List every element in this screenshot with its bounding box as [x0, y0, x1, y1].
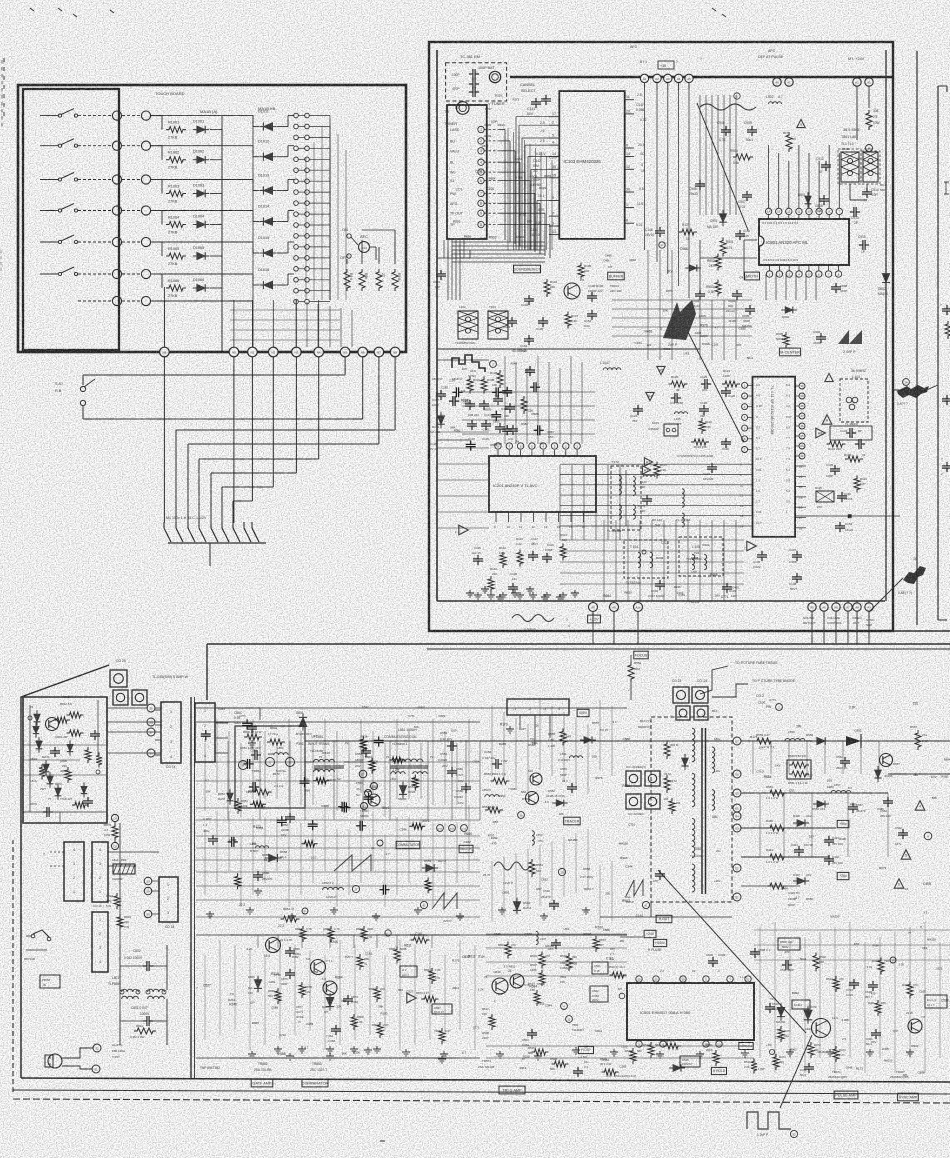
gnd symbol rows in deflection area: [251, 1051, 253, 1054]
resistor R904h: [733, 154, 753, 160]
cap C164: [524, 338, 534, 340]
svg-text:C100: C100: [549, 156, 557, 160]
wire bus A: [305, 740, 737, 742]
C133 12P: [722, 586, 732, 588]
svg-text:22K: 22K: [903, 1073, 908, 1077]
svg-text:2 2K: 2 2K: [478, 987, 485, 991]
R55a 30M resistor: [628, 662, 634, 682]
svg-text:220: 220: [913, 702, 919, 706]
middle connector box B: [92, 842, 108, 902]
41 terminal: [642, 901, 649, 908]
res R107: [565, 312, 571, 329]
svg-text:C222: C222: [936, 967, 943, 971]
svg-text:C771: C771: [408, 714, 415, 718]
svg-text:R319: R319: [520, 1066, 527, 1070]
terminal M1: [112, 111, 121, 120]
TR transistor 24: [510, 974, 524, 988]
diagonal wire from arrow: [922, 385, 938, 392]
diode D1012: [259, 153, 276, 161]
svg-text:C161: C161: [269, 980, 276, 984]
deflection mid horizontals: [196, 761, 480, 763]
C50 cap: [551, 942, 561, 944]
L553b coil: [785, 739, 805, 742]
+12V boxed: [588, 615, 601, 623]
svg-text:C100: C100: [486, 187, 494, 191]
R851 100k: [235, 798, 241, 814]
svg-text:0 068: 0 068: [229, 838, 237, 842]
deflection lower verticals: [204, 955, 206, 1040]
bottom amp labels: [251, 1079, 273, 1087]
svg-text:R173: R173: [273, 772, 280, 776]
IC501 bottom pins: [636, 1041, 642, 1047]
svg-text:C588: C588: [918, 1071, 925, 1075]
wire: [195, 859, 480, 861]
IF box: tuner-to-IC103 vertical weave: [507, 128, 509, 250]
svg-text:MA150: MA150: [550, 901, 560, 905]
svg-text:C710: C710: [274, 973, 281, 977]
sub box wires: [29, 705, 31, 812]
diode D802: [882, 270, 890, 287]
+26V boxed: [837, 872, 849, 879]
svg-text:R903: R903: [620, 856, 628, 860]
TR471 transistor: [812, 1019, 831, 1038]
H HOLD boxed: [711, 1067, 726, 1074]
cap C11B: [508, 586, 518, 588]
cap C903: [732, 293, 742, 295]
svg-text:2W: 2W: [584, 1045, 588, 1049]
wire: [486, 934, 627, 936]
resistor R90 on +24 rail: [866, 110, 872, 130]
svg-text:UF2: UF2: [684, 351, 690, 355]
IC103 pin 14: [549, 156, 559, 158]
svg-text:R100: R100: [381, 1011, 388, 1015]
caps row under sound reject: [524, 298, 534, 300]
svg-text:C161: C161: [606, 957, 614, 961]
small parts cluster x470-540 y390-450: [465, 403, 475, 405]
sawtooth 4VP-P: [432, 893, 457, 909]
C140 16V16: [837, 495, 847, 497]
C852 2200P: [285, 816, 295, 818]
svg-text:R465: R465: [480, 237, 487, 241]
cap C813: [853, 207, 855, 217]
svg-text:470: 470: [539, 441, 544, 445]
svg-text:R684: R684: [464, 832, 472, 836]
svg-text:C954: C954: [246, 790, 253, 794]
extra cluster caps IF box mid-left: [455, 387, 457, 397]
terminal A6: [589, 603, 598, 612]
svg-text:C588: C588: [691, 556, 699, 560]
C130 cap: [721, 441, 731, 443]
R518b: [630, 1048, 636, 1064]
svg-text:R100: R100: [839, 837, 846, 841]
terminal A0: [832, 603, 840, 611]
svg-text:R976: R976: [700, 323, 708, 327]
resistor R1061: [166, 127, 186, 133]
svg-text:R246: R246: [674, 585, 681, 589]
resistor R1066: [166, 285, 186, 291]
R424 230: [878, 958, 884, 975]
svg-text:4 7: 4 7: [462, 1051, 467, 1055]
svg-text:C100: C100: [758, 700, 766, 704]
diode D803: [685, 265, 701, 272]
svg-text:R538: R538: [369, 785, 377, 789]
cap C150: [735, 233, 745, 235]
svg-text:R246: R246: [229, 1003, 237, 1007]
R472 430: [808, 1042, 814, 1058]
R905 50KB: [783, 332, 789, 348]
diode D1063: [193, 190, 209, 198]
svg-text:R903: R903: [490, 443, 497, 447]
terminal A6: [820, 603, 828, 611]
connector CO-18 box: [159, 877, 178, 922]
terminal E2: [733, 864, 741, 872]
sub box bottom wires: [23, 811, 107, 813]
cap C905: [695, 293, 705, 295]
capacitor C141: [531, 101, 541, 103]
wire: [122, 210, 141, 212]
R864 1.8K: [429, 968, 435, 984]
TR851 transistor B: [239, 761, 248, 770]
terminal M7 bottom pair: [112, 296, 121, 305]
D552b diode: [813, 737, 829, 745]
terminal E5: [371, 783, 378, 790]
svg-text:R173: R173: [856, 1066, 864, 1070]
D559 diode: [422, 864, 438, 872]
svg-text:R903: R903: [530, 175, 538, 179]
black diode Q561: [669, 1064, 685, 1071]
wire: [210, 255, 222, 257]
terminal 27: [352, 885, 359, 892]
IF box inner-left dense wiring verticals: [443, 240, 445, 258]
svg-text:MA150: MA150: [818, 1050, 827, 1054]
cap C815: [862, 240, 864, 250]
inner right border of IF box: [885, 50, 887, 601]
res R112: [500, 552, 506, 568]
wire 16 up: [916, 540, 918, 563]
crystal filter can T103: [488, 311, 508, 339]
C55 cap flyback: [655, 873, 665, 875]
svg-text:C100: C100: [524, 933, 532, 937]
svg-text:R173: R173: [750, 735, 758, 739]
R124: [854, 476, 860, 493]
diagonal to square wave: [780, 1035, 812, 1108]
svg-text:R830: R830: [464, 235, 472, 239]
wires verticals: [257, 935, 259, 948]
ladder feed wires: [329, 116, 331, 301]
svg-text:UF2: UF2: [563, 927, 569, 931]
R860 330K: [361, 926, 367, 942]
IC103 pin 17: [549, 116, 559, 118]
T851 winding S: [314, 769, 335, 772]
terminal N5: [340, 347, 350, 357]
svg-text:C588: C588: [271, 1006, 278, 1010]
wire: [210, 159, 222, 161]
svg-text:C161: C161: [365, 952, 373, 956]
D806 diode: [254, 976, 262, 993]
svg-text:C649: C649: [493, 970, 501, 974]
svg-text:C771: C771: [473, 1026, 480, 1030]
switch S2: [40, 145, 58, 147]
wire row 5: [78, 241, 112, 243]
terminal D13: [461, 825, 468, 832]
400V boxed: [577, 709, 589, 716]
svg-text:C161: C161: [483, 427, 491, 431]
lower connector box C: [92, 912, 108, 972]
diagonal pointer in IF box 1: [697, 103, 748, 230]
terminal A12 pair: [773, 78, 781, 86]
T102 windings: [619, 475, 621, 494]
svg-text:C466: C466: [877, 807, 884, 811]
svg-text:R903: R903: [622, 899, 630, 903]
svg-text:50v1: 50v1: [532, 741, 538, 745]
svg-text:R319: R319: [322, 751, 330, 755]
svg-text:R392: R392: [296, 742, 304, 746]
tall IC102: [753, 377, 796, 537]
sub box resistors: [67, 712, 84, 718]
terminal A1b: [634, 603, 643, 612]
black square node: [848, 515, 851, 518]
svg-text:C466: C466: [680, 247, 688, 251]
wire: [122, 145, 141, 147]
L856 R856 coil: [255, 846, 268, 848]
terminal N8: [160, 347, 170, 357]
svg-text:C405: C405: [882, 1047, 889, 1051]
2M resistor: [669, 798, 675, 814]
triangle warn 1: [915, 801, 925, 811]
svg-text:56K: 56K: [450, 425, 455, 429]
extra gnds IF bottom: [469, 590, 471, 593]
svg-text:C100: C100: [621, 1045, 628, 1049]
svg-text:1KV: 1KV: [775, 764, 781, 768]
E8 transistor: [530, 773, 542, 785]
svg-text:10K: 10K: [559, 812, 564, 816]
svg-text:R684: R684: [489, 177, 496, 181]
C618 cap: [868, 984, 878, 986]
TRACER boxed: [564, 817, 581, 825]
svg-text:R319: R319: [495, 94, 502, 98]
resistor R902: [715, 254, 721, 271]
diode: [36, 737, 43, 753]
svg-text:C161: C161: [712, 342, 719, 346]
sound IF divider line: [437, 348, 700, 350]
resistor R854: [281, 916, 300, 922]
svg-text:C954: C954: [515, 157, 523, 161]
sine wave (1): [700, 104, 756, 110]
svg-text:1KV: 1KV: [871, 1040, 876, 1044]
svg-text:R684: R684: [764, 775, 772, 779]
wire: [351, 237, 358, 245]
svg-text:56K: 56K: [398, 988, 403, 992]
wire 24 arrow horizontal: [893, 389, 905, 391]
cap C116: [542, 556, 552, 558]
wire: [151, 210, 162, 212]
cap C104: [538, 320, 548, 322]
C132 82P: [642, 498, 652, 500]
wire: [122, 115, 141, 117]
square connector CO-25a: [110, 670, 127, 687]
svg-text:MA150: MA150: [884, 1059, 893, 1063]
+24V boxed: [644, 930, 656, 937]
svg-text:1 2W: 1 2W: [392, 767, 399, 771]
IC103 right pin 0: [625, 147, 634, 149]
res R113: [517, 550, 523, 567]
svg-text:56K: 56K: [932, 796, 937, 800]
8VP-P sawtooth: [626, 880, 643, 896]
FOCUS boxed: [634, 651, 648, 659]
svg-text:R100: R100: [484, 134, 491, 138]
svg-text:100P: 100P: [491, 120, 498, 124]
svg-text:1 2W: 1 2W: [501, 759, 508, 763]
R554 560: [529, 859, 535, 877]
sub box circles: [28, 716, 32, 720]
diode D1064: [193, 221, 209, 229]
sine wave bottom: [512, 615, 554, 622]
svg-text:R903: R903: [453, 220, 461, 224]
svg-text:R538: R538: [360, 734, 367, 738]
R813 22K 3W: [117, 914, 123, 930]
wire rails gate amp: [230, 934, 460, 936]
switch S4: [40, 210, 58, 212]
terminal N2: [269, 347, 279, 357]
switch loop wire upper: [344, 357, 346, 375]
42 terminal: [420, 901, 427, 908]
svg-text:C832: C832: [541, 878, 549, 882]
A5 triangle: [657, 366, 665, 374]
terminal S2: [93, 1044, 101, 1052]
terminal S5: [147, 704, 155, 712]
inner border bottom: [437, 600, 885, 602]
C823 cap: [343, 998, 353, 1000]
bus line below IC801: [700, 257, 757, 259]
top frame double line: [207, 643, 950, 645]
L551 coil: [393, 759, 423, 762]
C101 cap: [436, 273, 446, 275]
svg-text:0 01: 0 01: [311, 856, 317, 860]
tick marks right strip: [944, 181, 949, 183]
svg-text:2W: 2W: [252, 842, 257, 846]
sawtooth waveform pair: [334, 855, 371, 871]
IF box: right pin verticals: [699, 95, 701, 215]
svg-text:C588: C588: [537, 982, 545, 986]
terminal S9: [147, 749, 155, 757]
svg-text:100P: 100P: [268, 752, 275, 756]
svg-text:0 068: 0 068: [278, 1052, 286, 1056]
deflection verticals right half: [491, 706, 493, 776]
svg-text:220: 220: [455, 105, 460, 109]
terminal A circle: [924, 832, 932, 840]
wire: [151, 273, 162, 275]
sub box extra diodes: [67, 740, 73, 755]
wire: [644, 83, 646, 90]
C509 cap: [708, 960, 718, 962]
footer stub wire: [209, 543, 211, 566]
R473 394: [773, 1054, 779, 1070]
circle P: [659, 242, 665, 248]
flyback right winding: [712, 747, 715, 773]
IC103 pin 7: [549, 215, 559, 217]
cap C80b: [745, 308, 755, 310]
power switch: [33, 930, 50, 938]
svg-text:C771: C771: [769, 698, 776, 702]
svg-text:D5?: D5?: [527, 220, 532, 224]
connector pins (angled): [163, 522, 165, 528]
R105 100 resistor: [578, 263, 584, 280]
wire: [151, 145, 162, 147]
svg-text:MA150: MA150: [830, 915, 839, 919]
cap C808 470P: [831, 286, 841, 288]
flyback primary winding: [692, 728, 695, 762]
diode: [47, 772, 54, 788]
left column outer: [21, 665, 109, 756]
wire 16 diagonal: [869, 578, 903, 612]
C864 cap: [331, 1028, 341, 1030]
diode D801: [805, 192, 812, 208]
L854 coil: [274, 753, 288, 755]
TR851 transistor E: [286, 758, 295, 767]
svg-text:R684: R684: [944, 758, 950, 762]
C10? cap: [436, 393, 446, 395]
left margin dashes: [3, 58, 5, 62]
TR852 transistor: [266, 938, 281, 953]
+30 boxed: [658, 61, 674, 69]
wire mesh below IC801: [744, 239, 757, 241]
terminal A8: [853, 603, 861, 611]
terminal N4: [141, 206, 150, 215]
svg-text:470: 470: [854, 942, 859, 946]
terminal M6: [112, 269, 121, 278]
IC201 video IC: [489, 456, 596, 512]
svg-text:C466: C466: [569, 962, 577, 966]
PRINT IN boxed: [40, 975, 60, 988]
svg-text:C222: C222: [438, 714, 446, 718]
matrix bus vertical: [221, 129, 223, 352]
R563 390: [566, 953, 572, 971]
left column bus vertical 1: [190, 697, 192, 1078]
C501 cap: [592, 962, 608, 974]
chroma area vertical stubs: [504, 356, 506, 444]
L552 coil: [323, 887, 344, 890]
wire: [678, 83, 680, 90]
svg-text:R392: R392: [292, 955, 299, 959]
scan speckle noise: [0, 0, 1, 1]
pin16 wire: [795, 515, 900, 517]
cap C907: [742, 194, 752, 196]
svg-text:R173: R173: [253, 825, 261, 829]
svg-text:10K: 10K: [663, 309, 668, 313]
wire: [210, 129, 222, 131]
X101 ceramic filter: [664, 424, 678, 436]
R559 resistor: [754, 738, 774, 744]
transistor in sub box: [46, 718, 59, 731]
op-amp triangle A1: [459, 525, 469, 535]
wire: [287, 146, 289, 157]
right strip bracket top: [938, 85, 947, 87]
IC102 left pins: [742, 382, 748, 388]
C56c cap: [840, 760, 850, 762]
terminal circles A1-A5 on top bus: [640, 74, 648, 82]
wire to diode column: [222, 179, 253, 181]
D558 HF-1 diode: [265, 854, 282, 862]
T104 coils: [638, 552, 641, 568]
R513: [648, 1042, 654, 1058]
wire bend: [295, 357, 297, 473]
R512 47K: [663, 1043, 681, 1049]
R446 resistor: [767, 883, 787, 889]
wire straight N8: [163, 357, 165, 523]
diode D1065: [193, 252, 209, 260]
cap C146: [655, 230, 665, 232]
IC103 pin 3: [549, 225, 559, 227]
